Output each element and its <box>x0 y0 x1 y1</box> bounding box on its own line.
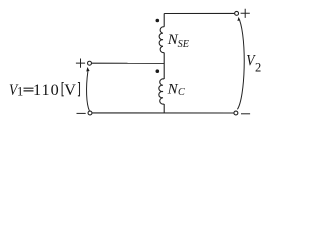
minus sign right <box>241 113 250 115</box>
terminal node right + <box>235 11 239 15</box>
svg-text:C: C <box>178 87 185 98</box>
plus sign left <box>76 59 85 68</box>
V2 arrowhead <box>237 17 240 21</box>
svg-text:N: N <box>167 82 179 98</box>
inductor N_C <box>159 79 164 104</box>
bracket ] <box>78 83 80 96</box>
polarity dot N_C <box>156 69 160 73</box>
wire top (N_SE corner to right + terminal) <box>164 12 234 14</box>
equals sign <box>24 88 34 91</box>
svg-text:SE: SE <box>178 39 190 50</box>
plus sign right <box>241 9 250 18</box>
svg-text:2: 2 <box>255 60 261 74</box>
bracket [ <box>62 83 64 96</box>
inductor N_SE <box>159 27 164 53</box>
terminal node right - <box>234 111 238 115</box>
V1 arrow curve <box>87 71 90 111</box>
minus sign left <box>77 112 86 114</box>
V2 arrow curve <box>237 20 244 110</box>
V1 arrowhead <box>86 67 89 72</box>
wire tap to left + terminal <box>92 62 165 64</box>
polarity dot N_SE <box>156 19 160 23</box>
wire N_C bottom lead <box>163 104 165 113</box>
wire bottom (left - to right - terminal) <box>92 112 234 114</box>
terminal node left + <box>88 61 92 65</box>
svg-text:110: 110 <box>33 81 60 99</box>
svg-text:1: 1 <box>17 85 23 99</box>
svg-text:V: V <box>64 81 76 99</box>
wire N_SE bottom to N_C top through tap junction <box>163 53 165 79</box>
wire N_SE top lead <box>163 14 165 27</box>
terminal node left - <box>88 111 92 115</box>
